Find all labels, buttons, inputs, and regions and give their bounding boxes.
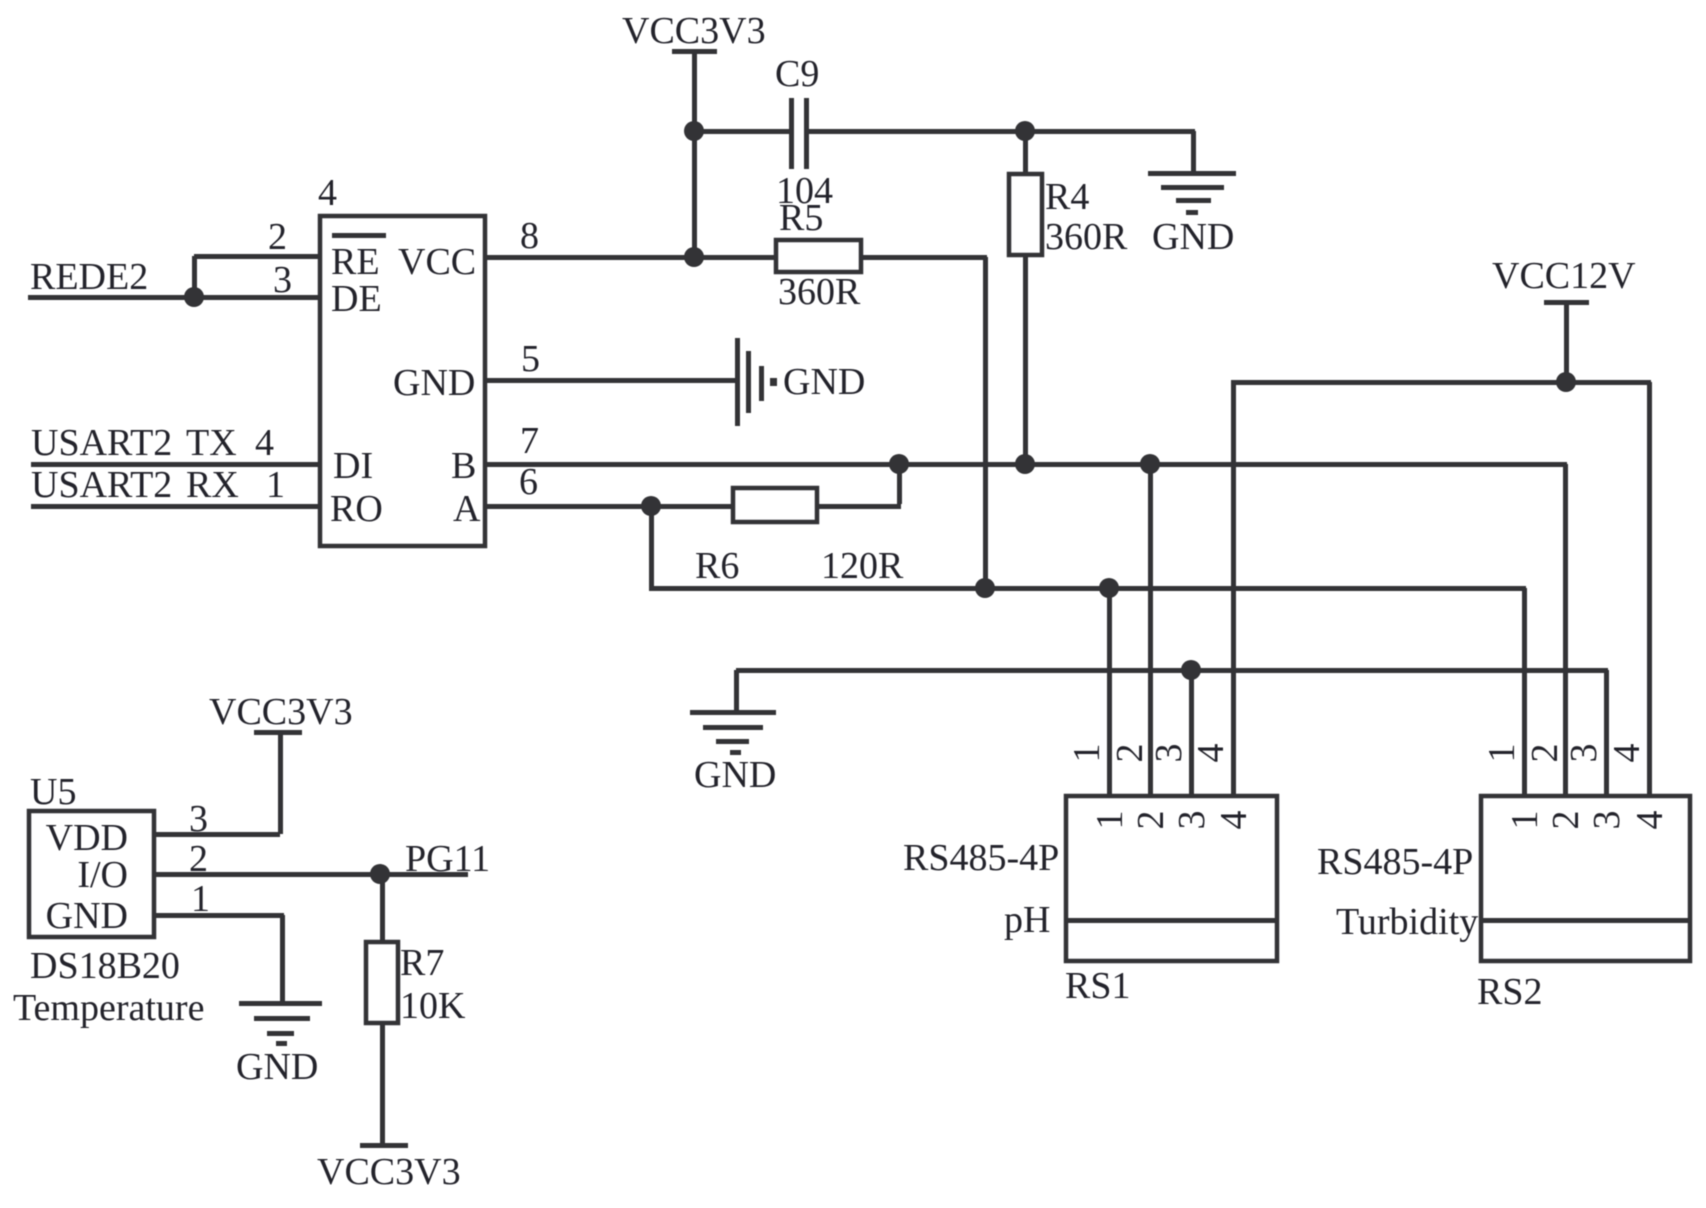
node REDE2 junction — [184, 287, 204, 307]
svg-text:R7: R7 — [400, 942, 444, 984]
RS2 pin numbers outside — [1481, 744, 1648, 763]
svg-text:4: 4 — [1190, 744, 1232, 763]
svg-text:7: 7 — [520, 420, 539, 462]
pin 8 label — [520, 215, 539, 257]
svg-text:3: 3 — [1148, 744, 1190, 763]
wire net A pin 6 — [485, 504, 733, 509]
svg-text:B: B — [451, 445, 476, 487]
node C9/R4 junction — [1015, 121, 1035, 141]
node A junction — [641, 496, 661, 516]
svg-text:1: 1 — [1089, 811, 1131, 830]
wire net B pin 7 — [485, 462, 1568, 796]
svg-text:2: 2 — [1545, 811, 1587, 830]
svg-text:3: 3 — [1563, 744, 1605, 763]
svg-text:VCC12V: VCC12V — [1492, 255, 1636, 297]
svg-text:4: 4 — [318, 172, 337, 214]
svg-text:R6: R6 — [695, 545, 739, 587]
svg-text:2: 2 — [1524, 744, 1566, 763]
wire pin 5 GND — [485, 378, 737, 383]
net USART2 TX pin 4 — [31, 422, 320, 467]
wire RS1 pin1 — [1107, 588, 1112, 796]
svg-text:VDD: VDD — [46, 817, 128, 859]
net REDE2 — [28, 256, 320, 300]
svg-text:4: 4 — [1629, 811, 1671, 830]
wire net A lower rail — [649, 506, 1527, 796]
svg-text:6: 6 — [519, 461, 538, 503]
svg-text:2: 2 — [1130, 811, 1172, 830]
wire VCC3V3 to pin8 — [692, 131, 697, 257]
node B/R6 junction — [889, 454, 909, 474]
svg-text:USART2: USART2 — [31, 422, 172, 464]
ground GND top right — [1148, 171, 1236, 258]
node A2/R5 junction — [975, 578, 995, 598]
ground GND bottom left — [236, 1001, 322, 1088]
svg-text:REDE2: REDE2 — [30, 256, 148, 298]
connector RS1 RS485-4P — [903, 796, 1277, 1007]
svg-text:1: 1 — [266, 464, 285, 506]
svg-text:RX: RX — [186, 464, 239, 506]
wire RS1 pin2 — [1148, 464, 1153, 796]
svg-text:GND: GND — [694, 754, 776, 796]
node A2/RS1 pin1 junction — [1099, 578, 1119, 598]
pin 7 label — [520, 420, 539, 462]
svg-text:3: 3 — [273, 259, 292, 301]
wire U5 pin3 to VCC3V3 — [154, 733, 283, 837]
wire pin 2 RE — [192, 254, 320, 297]
svg-text:TX: TX — [186, 422, 237, 464]
node B/R4 junction — [1015, 454, 1035, 474]
svg-text:VCC3V3: VCC3V3 — [209, 691, 353, 733]
RS1 pin numbers outside — [1066, 744, 1232, 763]
wire net VCC12V rail — [1231, 380, 1652, 796]
svg-text:RE: RE — [331, 241, 380, 283]
wire pin 8 VCC — [485, 255, 776, 260]
wire R5 right to A2 rail — [861, 255, 988, 588]
svg-text:VCC3V3: VCC3V3 — [622, 10, 766, 52]
svg-text:8: 8 — [520, 215, 539, 257]
resistor R7 10K — [366, 874, 466, 1146]
svg-text:1: 1 — [1066, 744, 1108, 763]
svg-text:RS485-4P: RS485-4P — [903, 837, 1059, 879]
U5 pin 3 label — [189, 798, 208, 840]
svg-text:GND: GND — [393, 362, 475, 404]
svg-text:R5: R5 — [779, 197, 823, 239]
node GND/RS1 pin3 junction — [1181, 660, 1201, 680]
resistor R5 360R — [776, 197, 861, 313]
node PG11/R7 junction — [370, 864, 390, 884]
pin 6 label — [519, 461, 538, 503]
svg-text:360R: 360R — [1045, 216, 1128, 258]
svg-text:Temperature: Temperature — [13, 987, 204, 1029]
RS1 pin numbers inside — [1089, 811, 1255, 830]
pin 3 label — [273, 259, 292, 301]
svg-text:120R: 120R — [821, 545, 904, 587]
svg-text:1: 1 — [1504, 811, 1546, 830]
resistor R6 120R — [695, 464, 904, 587]
svg-text:RS1: RS1 — [1065, 965, 1130, 1007]
svg-text:10K: 10K — [400, 985, 466, 1027]
svg-text:Turbidity: Turbidity — [1336, 901, 1478, 943]
svg-text:pH: pH — [1004, 899, 1050, 941]
pin 2 label — [268, 216, 287, 258]
IC U5 DS18B20 — [13, 771, 204, 1029]
ground GND at pin 5 — [735, 338, 865, 426]
svg-text:4: 4 — [255, 422, 274, 464]
svg-text:I/O: I/O — [77, 854, 128, 896]
wire net GND middle rail — [736, 668, 1609, 796]
connector RS2 RS485-4P — [1317, 796, 1690, 1013]
node VCC12V junction — [1556, 372, 1576, 392]
svg-text:5: 5 — [521, 338, 540, 380]
wire U5 pin1 to GND — [154, 913, 285, 1003]
wire RS1 pin4 — [1231, 382, 1236, 796]
wire RS1 pin3 — [1189, 670, 1194, 796]
svg-text:1: 1 — [1481, 744, 1523, 763]
ground GND middle — [690, 670, 776, 796]
wire U5 pin2 PG11 — [154, 838, 490, 880]
svg-text:GND: GND — [1152, 216, 1234, 258]
svg-text:360R: 360R — [778, 271, 861, 313]
net USART2 RX pin 1 — [31, 464, 320, 509]
capacitor C9 — [775, 53, 833, 212]
svg-text:U5: U5 — [30, 771, 76, 813]
svg-text:2: 2 — [268, 216, 287, 258]
svg-text:3: 3 — [1171, 811, 1213, 830]
IC 4 RS485 transceiver — [318, 172, 485, 546]
node pin8/VCC3V3 junction — [684, 247, 704, 267]
svg-text:DI: DI — [333, 445, 373, 487]
power VCC3V3 left — [209, 691, 353, 735]
power VCC3V3 bottom — [317, 1143, 461, 1193]
svg-text:VCC3V3: VCC3V3 — [317, 1151, 461, 1193]
svg-text:DE: DE — [331, 278, 382, 320]
power VCC12V — [1492, 255, 1636, 382]
node VCC3V3/C9 junction — [684, 121, 704, 141]
resistor R4 360R — [1009, 131, 1128, 464]
U5 pin 2 label — [189, 838, 208, 880]
pin 5 label — [521, 338, 540, 380]
svg-text:4: 4 — [1606, 744, 1648, 763]
U5 pin 1 label — [191, 878, 210, 920]
svg-text:USART2: USART2 — [31, 464, 172, 506]
svg-text:R4: R4 — [1045, 176, 1089, 218]
svg-text:VCC: VCC — [398, 241, 476, 283]
svg-text:GND: GND — [236, 1046, 318, 1088]
svg-text:GND: GND — [783, 361, 865, 403]
wire top rail right of C9 to GND — [809, 129, 1196, 173]
svg-text:DS18B20: DS18B20 — [30, 945, 180, 987]
power VCC3V3 top — [622, 10, 766, 131]
svg-text:3: 3 — [1586, 811, 1628, 830]
node B/RS1 pin2 junction — [1140, 454, 1160, 474]
RS2 pin numbers inside — [1504, 811, 1671, 830]
svg-text:4: 4 — [1213, 811, 1255, 830]
svg-text:RO: RO — [330, 488, 383, 530]
svg-text:GND: GND — [46, 895, 128, 937]
svg-text:PG11: PG11 — [405, 838, 490, 880]
svg-text:A: A — [453, 488, 481, 530]
svg-text:2: 2 — [1109, 744, 1151, 763]
svg-text:RS2: RS2 — [1477, 971, 1542, 1013]
wire top rail left of C9 — [694, 129, 789, 134]
svg-text:RS485-4P: RS485-4P — [1317, 841, 1473, 883]
svg-text:C9: C9 — [775, 53, 819, 95]
